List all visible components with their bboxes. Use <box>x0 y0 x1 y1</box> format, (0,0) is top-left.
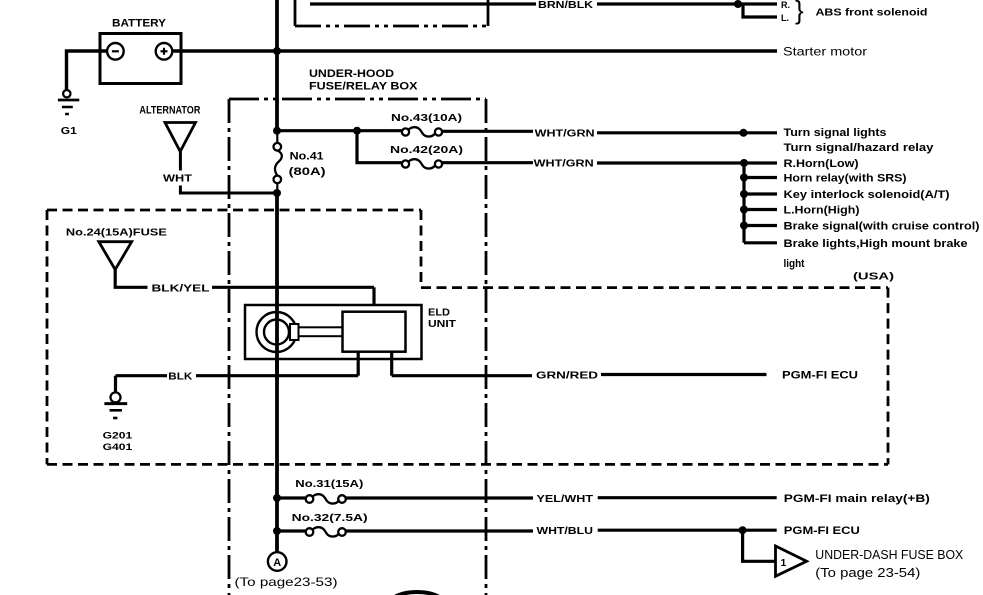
svg-text:WHT/GRN: WHT/GRN <box>535 128 595 140</box>
svg-text:BLK: BLK <box>168 371 192 383</box>
svg-text:No.42(20A): No.42(20A) <box>390 144 463 156</box>
svg-text:1: 1 <box>781 557 787 569</box>
svg-text:Horn relay(with SRS): Horn relay(with SRS) <box>784 173 907 185</box>
wire BRN/BLK <box>310 2 536 5</box>
junction bus x No.43 row <box>273 127 281 135</box>
svg-text:R.: R. <box>781 0 790 10</box>
svg-text:L.: L. <box>781 13 789 23</box>
svg-text:(To page 23-54): (To page 23-54) <box>815 565 920 580</box>
wire ELD to GRN/RED <box>390 352 393 376</box>
wire alternator WHT <box>179 152 182 171</box>
junction bus x No.31 row <box>273 494 281 502</box>
fuse No.32 <box>306 528 314 536</box>
svg-text:(USA): (USA) <box>853 271 894 283</box>
svg-text:PGM-FI main relay(+B): PGM-FI main relay(+B) <box>784 493 930 505</box>
wire bus through ELD (redraw over) <box>275 305 279 380</box>
svg-text:G1: G1 <box>61 126 78 137</box>
wire No.42 drop <box>357 131 402 163</box>
wire main vertical bus (upper) <box>275 0 279 132</box>
svg-text:PGM-FI ECU: PGM-FI ECU <box>782 370 858 382</box>
svg-text:UNDER-HOOD: UNDER-HOOD <box>309 68 394 80</box>
wire BLK/YEL drop into ELD <box>372 287 375 311</box>
svg-text:Key interlock solenoid(A/T): Key interlock solenoid(A/T) <box>784 189 950 201</box>
svg-text:No.32(7.5A): No.32(7.5A) <box>292 512 368 524</box>
ELD connector small rect <box>290 324 299 340</box>
ELD sensor donut <box>257 312 297 352</box>
wire main vertical bus (lower) <box>275 192 279 553</box>
wire stub Horn relay <box>744 176 777 179</box>
wire No.32 row <box>277 529 306 532</box>
svg-text:Starter motor: Starter motor <box>783 45 867 59</box>
svg-text:BATTERY: BATTERY <box>112 18 167 30</box>
wire No.42 row <box>442 161 533 164</box>
svg-text:Turn signal lights: Turn signal lights <box>784 127 887 139</box>
ground G201/G401 <box>111 392 121 402</box>
wire BLK/YEL <box>115 270 147 288</box>
ELD unit box <box>245 305 422 359</box>
junction bus x WHT wire <box>273 189 281 197</box>
wire GRN/RED <box>392 374 532 377</box>
junction WHT/BLU x under-dash branch <box>739 526 747 534</box>
ground G1 <box>63 90 70 97</box>
wire starter motor / battery positive <box>172 49 777 53</box>
svg-text:GRN/RED: GRN/RED <box>536 370 599 382</box>
alternator symbol <box>165 123 196 152</box>
battery B1 <box>100 34 181 84</box>
svg-text:WHT/GRN: WHT/GRN <box>534 158 594 170</box>
wire BLK <box>116 374 168 377</box>
svg-text:Turn signal/hazard relay: Turn signal/hazard relay <box>784 142 935 154</box>
junction bus x No.32 row <box>273 527 281 535</box>
junction turn-signal <box>740 129 748 137</box>
svg-text:(80A): (80A) <box>289 166 326 178</box>
wire BLK to ground <box>114 376 117 393</box>
fuse No.31 <box>306 495 314 503</box>
ELD bar <box>299 327 343 336</box>
svg-text:No.31(15A): No.31(15A) <box>295 478 363 490</box>
wire stub Brake signal <box>744 224 777 227</box>
svg-text:G201: G201 <box>103 431 133 442</box>
under-hood fuse/relay box (dash-dot border) <box>229 99 486 595</box>
junction 43row x 42 drop <box>353 127 361 135</box>
wire to under-dash fuse box <box>743 530 776 561</box>
svg-text:Brake lights,High mount brake: Brake lights,High mount brake <box>784 238 968 250</box>
wire stub Key interlock <box>744 192 777 195</box>
fuse No.43 <box>402 128 409 135</box>
svg-text:}: } <box>795 0 804 25</box>
svg-text:(To page23-53): (To page23-53) <box>235 575 338 589</box>
svg-text:ALTERNATOR: ALTERNATOR <box>139 105 200 117</box>
svg-text:ABS front solenoid: ABS front solenoid <box>816 8 928 19</box>
svg-text:PGM-FI ECU: PGM-FI ECU <box>784 525 860 537</box>
fuse No.41 on bus <box>274 143 282 151</box>
svg-text:ELD: ELD <box>428 308 450 319</box>
component partial ellipse bottom <box>392 592 443 595</box>
fuse No.42 <box>402 160 409 167</box>
svg-text:BRN/BLK: BRN/BLK <box>538 0 594 11</box>
wire battery negative to ground <box>67 51 108 90</box>
svg-text:light: light <box>784 258 805 270</box>
svg-text:UNIT: UNIT <box>428 319 456 330</box>
svg-text:WHT/BLU: WHT/BLU <box>537 525 594 537</box>
distribution vertical (horn/brake) <box>742 163 745 243</box>
svg-text:A: A <box>273 557 281 569</box>
dashed box (USA) <box>47 210 888 464</box>
wire ELD to BLK <box>357 352 360 376</box>
wire thin stub from fuse 41 bottom <box>276 183 278 195</box>
svg-text:WHT: WHT <box>163 173 193 185</box>
svg-text:G401: G401 <box>103 442 133 453</box>
svg-text:L.Horn(High): L.Horn(High) <box>784 205 860 217</box>
junction BRN/BLK split <box>734 0 742 8</box>
wire stub Brake lights <box>744 241 777 244</box>
svg-text:No.41: No.41 <box>290 151 324 163</box>
svg-text:No.43(10A): No.43(10A) <box>391 112 462 124</box>
wire branch to L stub <box>743 4 777 17</box>
svg-text:FUSE/RELAY BOX: FUSE/RELAY BOX <box>309 81 418 93</box>
svg-text:No.24(15A)FUSE: No.24(15A)FUSE <box>66 226 167 238</box>
junction bus x starter wire <box>273 47 281 55</box>
under-dash connector triangle 1 <box>776 546 807 576</box>
wire thin stub to fuse 41 top <box>276 131 278 144</box>
wire No.43 row <box>277 129 402 132</box>
fuse No.24 symbol <box>99 242 132 270</box>
svg-text:R.Horn(Low): R.Horn(Low) <box>784 158 859 170</box>
svg-text:Brake signal(with cruise contr: Brake signal(with cruise control) <box>784 221 980 233</box>
svg-text:BLK/YEL: BLK/YEL <box>152 282 211 294</box>
svg-text:YEL/WHT: YEL/WHT <box>537 493 594 505</box>
connector A circle <box>268 552 287 571</box>
connector box top (partial, dash-dot) <box>295 0 488 26</box>
svg-text:UNDER-DASH FUSE BOX: UNDER-DASH FUSE BOX <box>815 547 963 562</box>
wire stub L.Horn <box>744 208 777 211</box>
wire stub R.Horn <box>744 161 777 164</box>
ELD inner box <box>343 312 406 352</box>
wire No.31 row <box>277 496 306 499</box>
